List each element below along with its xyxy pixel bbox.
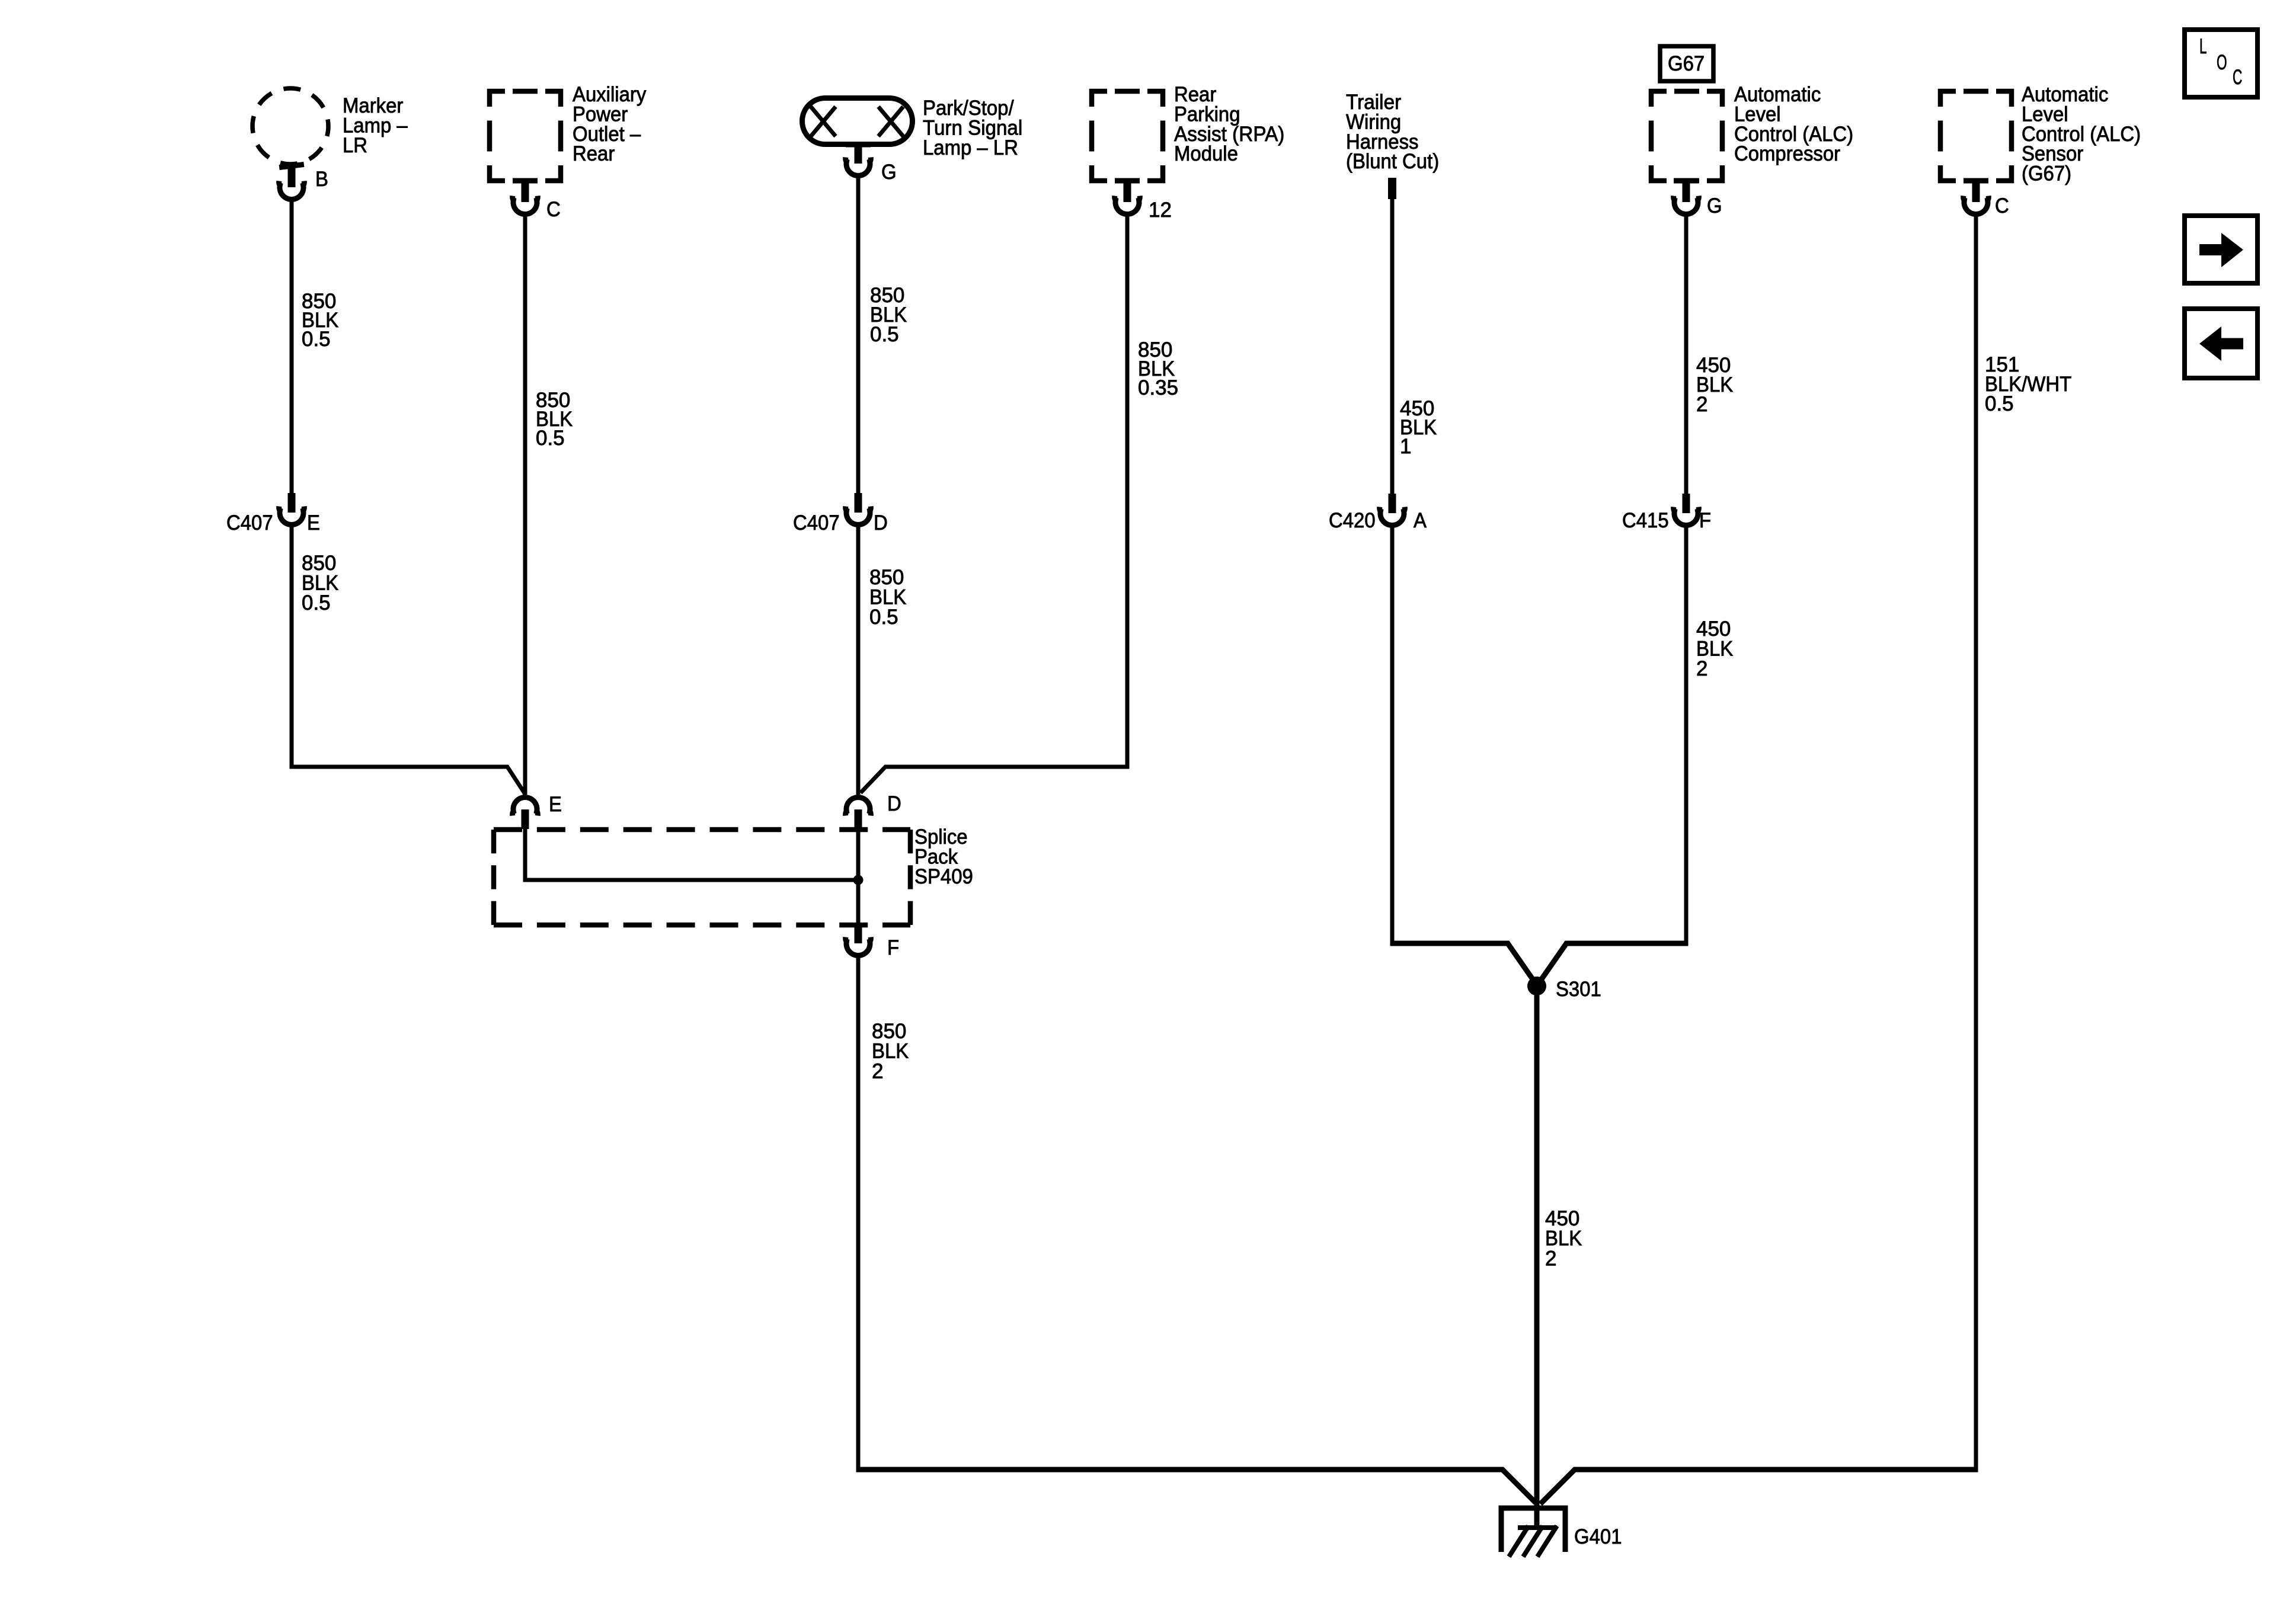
automatic level control sensor (dashed box) (1940, 91, 2012, 181)
wire bottom run to ground G401 (856, 1470, 1536, 1503)
splice input connector D (846, 798, 871, 829)
svg-text:A: A (1414, 509, 1427, 532)
blunt cut stub (1388, 178, 1396, 199)
splice junction dot (853, 875, 864, 885)
wire label 450 BLK 2 (1545, 1207, 1582, 1270)
wire 450 BLK 2 from S301 to ground G401 (1534, 986, 1540, 1528)
wire 450 BLK 2 from C415 to splice S301 (1684, 527, 1689, 946)
wire 850 BLK 2 from splice F to ground G401 (856, 958, 861, 1472)
svg-text:2: 2 (1545, 1247, 1557, 1270)
svg-text:0.5: 0.5 (536, 427, 565, 450)
wire 850 BLK 0.5 from C407-E to splice pack (290, 527, 526, 794)
wire label 850 BLK 0.5 (302, 290, 338, 351)
trailer wiring harness label (1346, 91, 1439, 173)
svg-text:G: G (881, 161, 897, 184)
ground G401 bracket (1501, 1508, 1565, 1552)
wire label 450 BLK 2 (1696, 354, 1733, 416)
splice input connector E (513, 798, 538, 829)
svg-text:L: L (2199, 35, 2207, 58)
wire label 850 BLK 0.5 (870, 284, 907, 346)
wire label 850 BLK 2 (872, 1020, 909, 1083)
svg-text:2: 2 (1696, 393, 1708, 416)
connector pin C at aux outlet (513, 178, 538, 215)
inline connector C407 cavity E (279, 493, 305, 524)
wire junction segment to S301 (1390, 943, 1537, 984)
svg-text:(G67): (G67) (2022, 162, 2071, 185)
wire junction segment to S301 (1538, 943, 1689, 984)
ground hatch stroke 1 (1509, 1526, 1528, 1557)
marker lamp label (343, 94, 408, 157)
svg-text:C407: C407 (793, 511, 840, 534)
svg-text:(Blunt Cut): (Blunt Cut) (1346, 150, 1439, 173)
svg-text:G401: G401 (1574, 1525, 1622, 1548)
right arrow (2199, 244, 2223, 255)
wire 850 BLK 0.35 from RPA module to splice pack D (861, 216, 1130, 793)
svg-text:12: 12 (1149, 199, 1172, 222)
svg-text:F: F (1699, 509, 1711, 532)
svg-text:0.5: 0.5 (302, 328, 331, 351)
svg-text:E: E (549, 793, 562, 816)
svg-text:B: B (315, 168, 328, 191)
wire from C420 to splice S301 (1390, 527, 1395, 946)
svg-text:G: G (1707, 194, 1722, 217)
svg-text:SP409: SP409 (914, 865, 973, 888)
wire label 850 BLK 0.5 (536, 389, 573, 450)
svg-text:C415: C415 (1622, 509, 1669, 532)
svg-text:E: E (307, 511, 320, 534)
left arrow (2220, 338, 2243, 350)
svg-text:0.35: 0.35 (1138, 376, 1178, 399)
ALC compressor label (1734, 83, 1853, 165)
svg-text:C407: C407 (226, 511, 273, 534)
svg-text:S301: S301 (1556, 978, 1601, 1001)
wire label 151 BLK/WHT 0.5 (1985, 353, 2071, 415)
park/stop/turn signal lamp (stadium outline) (802, 98, 913, 145)
lamp X left (811, 107, 836, 136)
svg-text:Compressor: Compressor (1734, 142, 1840, 165)
svg-text:O: O (2217, 51, 2227, 74)
automatic level control compressor (dashed box) (1651, 91, 1722, 181)
splice S301 junction dot (1527, 977, 1546, 996)
connector pin G at ALC compressor (1674, 178, 1699, 215)
rear parking assist module (dashed box) (1092, 91, 1163, 181)
wire label 450 BLK 1 (1400, 397, 1437, 458)
right arrow legend box (2185, 216, 2257, 283)
svg-text:G67: G67 (1668, 52, 1705, 75)
splice pack SP409 dashed box (494, 827, 910, 833)
RPA module label (1174, 83, 1284, 165)
ground code box G67 (1660, 46, 1713, 81)
aux power outlet label (573, 83, 647, 165)
left arrow legend box (2185, 309, 2257, 378)
svg-text:0.5: 0.5 (869, 606, 898, 629)
svg-text:D: D (887, 792, 901, 815)
wire bottom run to ground G401 (1540, 1470, 1978, 1504)
wire 850 BLK 0.5 from C407-D to splice pack D (856, 527, 861, 795)
connector pin B at marker lamp (279, 162, 305, 200)
connector pin 12 at RPA module (1115, 178, 1140, 215)
wire 850 BLK 0.5 from marker lamp to C407 (290, 201, 294, 494)
svg-text:D: D (874, 511, 888, 534)
auxiliary power outlet rear (dashed box) (490, 91, 561, 181)
svg-text:C420: C420 (1329, 509, 1376, 532)
svg-text:C: C (1995, 194, 2009, 217)
svg-text:F: F (887, 936, 899, 959)
ALC sensor label (2022, 83, 2141, 185)
ground hatch stroke 2 (1523, 1526, 1543, 1557)
LOC legend box (2185, 30, 2257, 97)
wire 850 BLK 0.5 from aux outlet to splice pack E (523, 216, 527, 795)
svg-text:2: 2 (872, 1060, 884, 1083)
svg-text:0.5: 0.5 (1985, 392, 2014, 415)
svg-text:0.5: 0.5 (870, 323, 899, 346)
connector pin C at ALC sensor (1964, 178, 1989, 215)
lamp X right (878, 107, 903, 136)
svg-text:0.5: 0.5 (302, 591, 331, 614)
wire 151 BLK/WHT 0.5 from ALC sensor to ground G401 (1974, 216, 1978, 1472)
wire 450 BLK 1 from trailer harness to C420 (1390, 199, 1395, 494)
wire label 850 BLK 0.35 (1138, 338, 1178, 399)
inline connector C415 cavity F (1674, 494, 1699, 525)
splice output connector F (846, 924, 871, 955)
ground hatch stroke 3 (1537, 1526, 1557, 1557)
svg-text:1: 1 (1400, 435, 1412, 458)
wire label 450 BLK 2 (1696, 617, 1733, 680)
inline connector C420 cavity A (1380, 494, 1405, 525)
wire label 850 BLK 0.5 below C407 (302, 552, 338, 614)
splice internal wire from E (525, 829, 858, 880)
splice pack label (914, 825, 973, 888)
connector pin G at park lamp (846, 142, 871, 176)
svg-text:2: 2 (1696, 657, 1708, 680)
svg-text:Rear: Rear (573, 142, 615, 165)
svg-text:C: C (546, 198, 561, 221)
wire 450 BLK 2 from ALC compressor to C415 (1684, 216, 1689, 494)
svg-text:Module: Module (1174, 142, 1238, 165)
inline connector C407 cavity D (846, 493, 871, 524)
wire label 850 BLK 0.5 (869, 566, 906, 629)
svg-text:Lamp – LR: Lamp – LR (923, 136, 1018, 159)
splice internal wire from D to F (856, 829, 861, 925)
park lamp label (923, 97, 1022, 159)
svg-text:C: C (2233, 66, 2242, 89)
wire 850 BLK 0.5 from park lamp to C407 (856, 177, 861, 494)
marker lamp LR (dashed circle) (252, 88, 328, 164)
svg-text:LR: LR (343, 134, 367, 157)
ground hatch bar (1518, 1525, 1557, 1530)
